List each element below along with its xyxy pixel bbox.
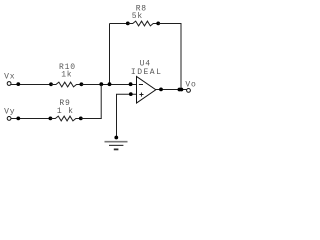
resistor R9 [49,116,83,121]
wire top-right horizontal feedback segment [158,23,181,25]
svg-text:1 k: 1 k [57,107,74,116]
pin dot inverting input [129,82,133,86]
resistor R8 [126,21,160,26]
svg-text:Vy: Vy [4,107,15,116]
wire ground corner to non-inverting input [116,93,137,95]
junction node A with Vy branch [99,82,103,86]
wire ground vertical [116,94,118,137]
terminal Vy [7,117,11,121]
svg-text:5k: 5k [132,12,143,21]
svg-text:IDEAL: IDEAL [131,68,163,77]
svg-text:Vo: Vo [185,80,196,89]
junction dot Vx lead [16,82,20,86]
svg-text:U4: U4 [140,60,151,69]
junction feedback at output [178,88,182,92]
ground [105,136,128,150]
junction output terminal [180,88,184,92]
wire Vx to R10 [11,84,51,86]
wire top-left horizontal feedback segment [110,23,129,25]
wire R10 to op-amp inverting input (node A) [81,84,136,86]
wire left feedback vertical [109,24,111,85]
wire R9 to corner [81,118,102,120]
op-amp U4 [137,77,156,104]
junction dot Vy lead [16,117,20,121]
pin dot output [159,88,163,92]
terminal Vx [7,82,11,86]
svg-text:1k: 1k [61,71,72,80]
terminal Vo [187,89,191,93]
wire Vy to R9 [11,118,50,120]
junction node A with feedback [108,82,112,86]
wire op-amp output [156,89,187,91]
resistor R10 [49,82,83,87]
svg-text:Vx: Vx [4,73,15,82]
wire right feedback vertical [180,24,182,90]
pin dot non-inverting input [129,92,133,96]
wire Vy branch vertical up to node A [100,85,102,119]
